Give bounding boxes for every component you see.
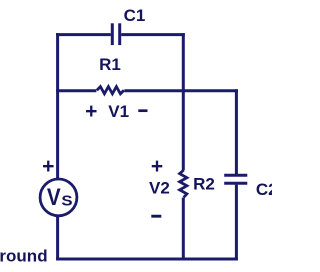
svg-text:+: + bbox=[85, 100, 97, 123]
wire middle row left of R1 bbox=[56, 89, 96, 92]
wire bottom rail bbox=[56, 258, 238, 261]
wire left rail top segment bbox=[56, 33, 59, 180]
wire right rail lower segment bbox=[235, 185, 238, 261]
svg-text:V2: V2 bbox=[149, 179, 170, 198]
svg-text:+: + bbox=[151, 155, 163, 178]
svg-text:V: V bbox=[47, 183, 61, 210]
svg-text:Ground: Ground bbox=[0, 247, 48, 266]
voltage source VS circle bbox=[40, 179, 77, 216]
svg-text:C1: C1 bbox=[124, 6, 146, 25]
label minus V2 bbox=[151, 215, 161, 218]
label minus V1 bbox=[138, 109, 147, 112]
wire top row left of C1 bbox=[56, 33, 111, 36]
svg-text:R1: R1 bbox=[99, 55, 121, 74]
svg-text:C2: C2 bbox=[256, 180, 272, 199]
wire left rail bottom segment bbox=[56, 216, 59, 261]
svg-text:+: + bbox=[42, 155, 54, 178]
wire middle rail lower segment bbox=[182, 198, 185, 261]
svg-text:V1: V1 bbox=[108, 102, 129, 121]
svg-text:S: S bbox=[61, 193, 72, 209]
wire right rail upper segment bbox=[235, 89, 238, 174]
wire top row right of C1 bbox=[121, 33, 185, 36]
capacitor C1 bbox=[112, 23, 119, 45]
capacitor C2 bbox=[224, 175, 247, 183]
wire middle row right of R1 bbox=[124, 89, 237, 92]
resistor R2 bbox=[180, 170, 187, 197]
wire middle rail upper segment bbox=[182, 33, 185, 170]
svg-text:R2: R2 bbox=[193, 174, 215, 193]
resistor R1 bbox=[97, 87, 124, 94]
